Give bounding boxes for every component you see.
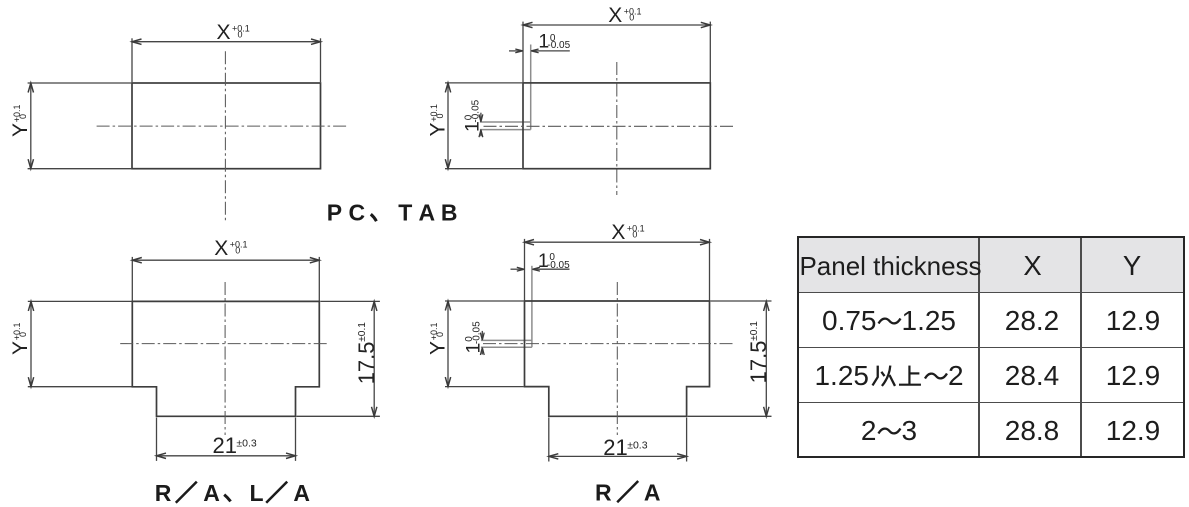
svg-text:Y: Y [9,341,32,355]
svg-text:0: 0 [632,229,637,239]
table row 3: 2~3 / 28.8 / 12.9 [861,415,917,447]
svg-text:X: X [217,21,231,44]
fig3 overall height dimension 17.5 ±0.1 (right) [297,301,380,416]
fig2 slot height dimension 1 0/-0.05 (left) [462,99,484,137]
svg-text:X: X [608,4,622,27]
table header: Y [1123,250,1141,282]
fig2 vertical centerline [616,62,618,195]
fig3 notch width dimension 21 ±0.3 (bottom) [157,418,296,461]
svg-text:A: A [644,480,661,506]
svg-text:-0.05: -0.05 [547,40,570,51]
fig1 dimension Y (left) [9,83,131,169]
fig4 horizontal centerline [483,343,734,345]
svg-text:Y: Y [9,123,32,137]
table column divider 1 [978,238,980,456]
svg-text:Y: Y [426,341,449,355]
svg-text:P: P [327,200,342,226]
table row line 2 [799,347,1184,349]
svg-text:0: 0 [18,114,28,119]
svg-text:-0.05: -0.05 [547,260,570,271]
fig2 dimension X (top) [523,4,710,82]
fig3 vertical centerline [224,282,226,435]
fig2 panel cutout rectangle [523,83,710,169]
fig1 dimension X (top) [132,21,321,82]
svg-text:±0.1: ±0.1 [749,321,760,341]
table column divider 2 [1080,238,1082,456]
table row 2: 1.25以上~2 / 28.4 / 12.9 [814,360,963,392]
fig3 dimension Y (left) [9,301,131,386]
fig1 panel cutout rectangle [132,83,321,169]
svg-text:X: X [611,221,625,244]
fig4 vertical centerline [616,282,618,435]
fig2 slot width dimension 1 0/-0.05 (top) [509,31,571,53]
fig4 slot height dimension 1 0/-0.05 (left) [462,321,484,355]
table row line 1 [799,292,1184,294]
svg-text:A: A [419,200,436,226]
fig1 vertical centerline [224,51,226,222]
svg-text:±0.3: ±0.3 [627,439,648,451]
fig3 horizontal centerline [120,343,328,345]
svg-text:±0.1: ±0.1 [357,322,368,342]
svg-text:±0.3: ±0.3 [236,437,257,449]
svg-text:A: A [203,480,220,506]
table row 1: 0.75~1.25 / 28.2 / 12.9 [822,305,956,337]
fig2 horizontal centerline [484,125,735,127]
fig2 dimension Y (left) [426,83,522,169]
fig4 T-shaped panel cutout outline [525,301,710,416]
data table: panel thickness vs X and Y [797,236,1186,458]
svg-text:0: 0 [238,29,243,39]
svg-text:X: X [214,237,228,260]
svg-text:17.5: 17.5 [746,340,771,383]
label R/A、L/A [155,480,310,506]
svg-text:R: R [155,480,172,506]
svg-text:21: 21 [603,435,627,460]
svg-text:B: B [441,200,458,226]
svg-text:C: C [349,200,366,226]
fig4 overall height dimension 17.5 ±0.1 (right) [688,301,772,416]
svg-text:L: L [250,480,264,506]
label R/A [595,480,661,506]
fig4 dimension Y (left) [426,301,523,387]
svg-text:21: 21 [213,433,237,458]
table header: X [1023,250,1041,282]
fig2 L-slot (polarizing groove) [480,45,531,130]
svg-text:R: R [595,480,612,506]
svg-text:-0.05: -0.05 [471,99,482,122]
svg-text:0: 0 [629,12,634,22]
svg-text:17.5: 17.5 [354,341,379,384]
table header: Panel thickness [799,250,981,282]
fig3 T-shaped panel cutout outline [132,301,319,416]
svg-text:-0.05: -0.05 [471,321,482,344]
svg-text:A: A [293,480,310,506]
svg-text:Y: Y [426,122,449,136]
fig1 horizontal centerline [97,125,349,127]
fig4 dimension X (top) [525,221,710,301]
fig3 dimension X (top) [132,237,319,301]
label PC、TAB [327,200,458,226]
svg-text:T: T [398,200,412,226]
fig4 slot width dimension 1 0/-0.05 (top) [511,250,571,272]
svg-text:0: 0 [18,332,28,337]
svg-text:0: 0 [235,245,240,255]
fig4 L-slot (polarizing groove) [481,266,532,347]
svg-text:0: 0 [435,113,445,118]
fig4 notch width dimension 21 ±0.3 (bottom) [549,418,687,462]
svg-text:0: 0 [435,332,445,337]
table row line 3 [799,402,1184,404]
